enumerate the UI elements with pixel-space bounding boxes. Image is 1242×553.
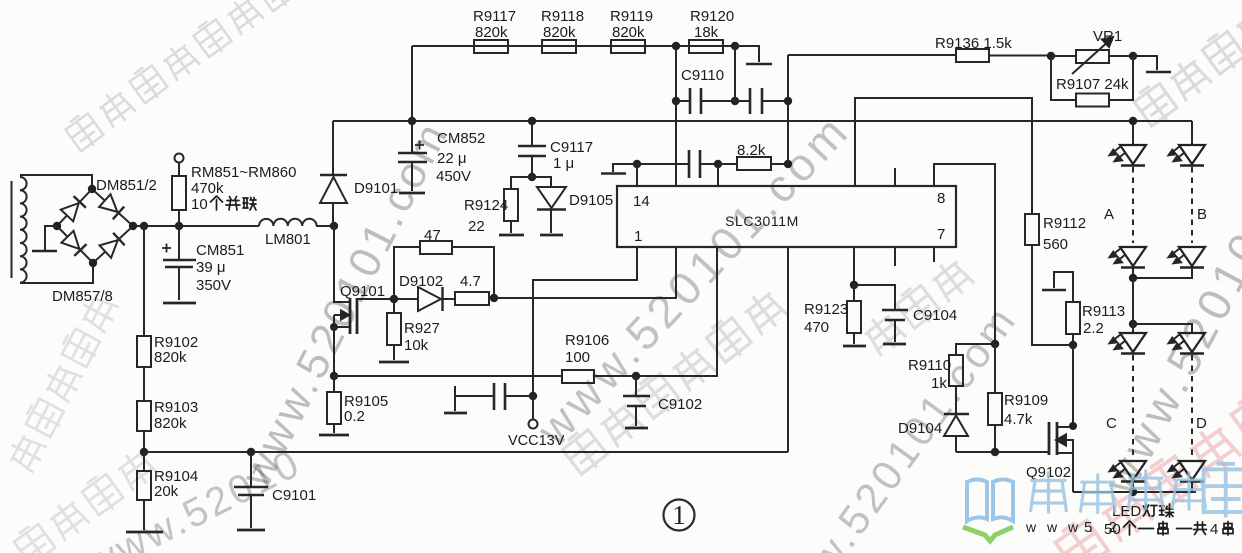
node Q9101 gate <box>390 295 398 303</box>
svg-text:7: 7 <box>937 226 945 243</box>
svg-text:R9119: R9119 <box>610 8 653 25</box>
node 8.2k right <box>784 160 792 168</box>
watermark www.520101.com left diagonal <box>231 113 458 495</box>
resistor R9110 <box>949 355 963 414</box>
wire R9104 to ground <box>143 500 145 530</box>
inductor LM801 <box>259 219 317 226</box>
resistor R9105 <box>327 376 341 433</box>
ground VR1 <box>1146 71 1171 74</box>
svg-text:R9112: R9112 <box>1043 215 1086 232</box>
LED D2 <box>1169 461 1206 482</box>
wire B2 to join <box>1133 268 1192 278</box>
ground R9104 <box>126 531 163 534</box>
svg-text:R9136 1.5k: R9136 1.5k <box>935 35 1012 52</box>
node VR1 left <box>1047 52 1055 60</box>
wire bottom rail riser to IC <box>787 247 789 452</box>
watermark CJK left edge <box>5 292 120 473</box>
wire dashed string C <box>1132 355 1134 456</box>
resistor R9103 <box>137 401 151 431</box>
capacitor CM851 <box>162 226 196 300</box>
node R9105 top <box>330 372 338 380</box>
svg-text:RM851~RM860: RM851~RM860 <box>191 164 296 181</box>
resistor R9120 <box>689 40 723 53</box>
wire AB to CD <box>1132 278 1134 324</box>
capacitor C9110b <box>735 88 788 114</box>
svg-text:820k: 820k <box>612 24 645 41</box>
ground C9104 <box>883 343 906 346</box>
ground at bridge left <box>32 250 57 253</box>
wire dashed string D <box>1191 355 1193 456</box>
label 10个并联 strokes <box>211 196 257 210</box>
wire pin stub 718 <box>717 164 719 186</box>
diode D9105 <box>532 177 566 233</box>
watermark CJK top-right corner <box>1132 2 1242 129</box>
svg-text:820k: 820k <box>543 24 576 41</box>
wire LED bottom rail <box>1073 491 1196 493</box>
resistor 8.2k <box>718 157 788 170</box>
wire bottom rail <box>144 451 788 453</box>
transformer winding T <box>12 177 27 283</box>
resistor 4.7 <box>455 292 494 305</box>
svg-text:C9117: C9117 <box>550 139 593 156</box>
node C9110 mid <box>731 97 739 105</box>
wire source to R9105 node <box>333 327 335 376</box>
LED A1 <box>1110 145 1147 166</box>
logo url text <box>1025 519 1123 536</box>
svg-text:100: 100 <box>565 349 590 366</box>
wire IC bottom dead stub pin7 <box>933 247 935 262</box>
transistor Q9102 <box>1049 345 1073 492</box>
svg-text:R9109: R9109 <box>1004 392 1048 409</box>
ground R9123 <box>843 345 866 348</box>
node gate net top <box>991 340 999 348</box>
svg-text:470: 470 <box>804 319 829 336</box>
node R9109 bottom <box>991 448 999 456</box>
wire A2 to join <box>1132 268 1134 278</box>
terminal VCC13V <box>529 396 538 429</box>
ground pin14 <box>601 172 626 175</box>
svg-text:R9113: R9113 <box>1082 303 1125 320</box>
wire R9110 top <box>956 344 995 355</box>
label LED CJK strokes <box>1124 504 1234 535</box>
LED D1 <box>1169 333 1206 354</box>
svg-text:C9104: C9104 <box>913 307 957 324</box>
wire C9110 riser <box>787 55 789 164</box>
node R9113 bottom <box>1069 341 1077 349</box>
wire pin14 stub <box>636 164 638 186</box>
node C9102 top <box>632 372 640 380</box>
node bridge top <box>88 185 96 193</box>
svg-text:R9110: R9110 <box>908 357 951 374</box>
node bridge right <box>129 222 137 230</box>
label LED strings bottom <box>1104 503 1218 538</box>
svg-text:4.7k: 4.7k <box>1004 411 1033 428</box>
wire HV rail top <box>333 120 1192 122</box>
diode D9101 <box>320 121 347 226</box>
watermark www.520101.com center diagonal <box>526 103 860 456</box>
svg-text:4.7: 4.7 <box>460 273 481 290</box>
LED A2 <box>1110 247 1147 268</box>
svg-text:1: 1 <box>634 228 642 245</box>
labels top resistor row <box>473 8 734 84</box>
wire R9103 to bottom rail <box>143 431 145 452</box>
wire C stem <box>1132 324 1134 333</box>
resistor R9104 <box>137 471 151 500</box>
svg-text:D9101: D9101 <box>354 180 398 197</box>
node bridge left <box>53 222 61 230</box>
svg-text:8.2k: 8.2k <box>737 142 766 159</box>
node C9101 top <box>247 448 255 456</box>
svg-text:C9102: C9102 <box>658 396 702 413</box>
resistor R9107 loop <box>1051 56 1133 107</box>
svg-text:Q9101: Q9101 <box>340 283 385 300</box>
svg-text:C9101: C9101 <box>272 487 316 504</box>
wire gate drive to IC pin <box>494 247 676 298</box>
wire coil bottom to bridge bottom <box>20 263 93 283</box>
node C9117 top <box>528 117 536 125</box>
svg-text:A: A <box>1104 206 1114 223</box>
watermark CJK mid-right of IC <box>860 255 975 357</box>
resistor R9106 <box>562 370 594 383</box>
wire R9120 right to C9110 mid <box>734 46 736 101</box>
wire R9102-R9103 <box>143 367 145 401</box>
node rail R9102 branch <box>140 222 148 230</box>
node C bottom <box>1129 488 1137 496</box>
resistor R9123 <box>847 285 861 344</box>
svg-text:R9123: R9123 <box>804 301 848 318</box>
wire pin1 loop <box>533 247 637 396</box>
wire IC top pin riser to R9112 <box>855 98 1032 214</box>
svg-text:CM851: CM851 <box>196 242 244 259</box>
svg-text:D9102: D9102 <box>399 273 443 290</box>
resistor R927 <box>387 299 401 360</box>
svg-text:C9110: C9110 <box>681 67 724 84</box>
wire VR1 right to ground <box>1133 56 1157 70</box>
logo book icon <box>963 480 1013 542</box>
node LED A top <box>1129 117 1137 125</box>
resistor R9124 <box>504 189 518 233</box>
svg-text:LM801: LM801 <box>265 231 311 248</box>
svg-text:350V: 350V <box>196 277 231 294</box>
LED B2 <box>1169 247 1206 268</box>
labels right section <box>804 28 1207 481</box>
svg-text:B: B <box>1197 206 1207 223</box>
watermark CJK top-left diagonal <box>63 0 297 154</box>
svg-text:1k: 1k <box>931 375 947 392</box>
wire dashed string B <box>1191 167 1193 243</box>
wire dashed string A <box>1132 167 1134 243</box>
svg-text:R9118: R9118 <box>541 8 584 25</box>
capacitor C9102 <box>623 376 650 426</box>
svg-text:R9107 24k: R9107 24k <box>1056 76 1129 93</box>
svg-text:10k: 10k <box>404 337 429 354</box>
capacitor Vcc <box>455 383 533 411</box>
ground R9124 <box>499 234 524 237</box>
wire LM801 to drain node <box>316 225 334 227</box>
svg-text:1: 1 <box>672 500 686 530</box>
svg-text:D9104: D9104 <box>898 420 942 437</box>
wire C9110 row <box>675 46 677 186</box>
wire to ground right of R9120 <box>735 46 759 62</box>
svg-text:4: 4 <box>1210 521 1218 538</box>
node R9120 right <box>731 42 739 50</box>
labels middle section <box>340 142 766 449</box>
svg-text:0.2: 0.2 <box>344 408 365 425</box>
resistor R9112 <box>1025 214 1073 345</box>
node CM852 top <box>408 117 416 125</box>
svg-text:R9124: R9124 <box>464 197 508 214</box>
node CD split <box>1129 320 1137 328</box>
resistor R9136 <box>956 49 1051 62</box>
node bridge bottom <box>89 259 97 267</box>
node gate drive <box>490 294 498 302</box>
ground C9102 <box>625 427 648 430</box>
wire bridge left to ground <box>45 226 57 250</box>
svg-text:R9120: R9120 <box>690 8 734 25</box>
wire LED top feed A <box>1132 121 1134 145</box>
capacitor CM852 <box>398 121 427 191</box>
node R9123 top <box>850 281 858 289</box>
svg-text:VR1: VR1 <box>1093 28 1122 45</box>
watermark CJK center diagonal <box>560 287 789 478</box>
svg-text:VCC13V: VCC13V <box>508 433 565 449</box>
wire IC bottom dead stub a <box>894 247 896 266</box>
wire C2 to rail <box>1132 482 1134 492</box>
svg-text:D9105: D9105 <box>569 192 613 209</box>
wire IC bottom stub R9123 <box>853 247 855 285</box>
labels IC <box>633 190 945 245</box>
wire top resistor rail <box>412 45 735 47</box>
watermark www.520101.com right-bottom diagonal <box>760 296 1026 553</box>
LED B1 <box>1169 145 1206 166</box>
watermark www.520101.com right edge diagonal <box>1092 83 1242 503</box>
svg-text:SLC3011M: SLC3011M <box>725 213 799 229</box>
node Vcc cap <box>529 392 537 400</box>
svg-text:R9117: R9117 <box>473 8 516 25</box>
IC U1 SLC3011M box <box>617 186 956 247</box>
svg-text:470k: 470k <box>191 180 224 197</box>
node C9110 right <box>784 97 792 105</box>
wire to R9124 <box>511 177 532 189</box>
node C9117 bottom <box>528 173 536 181</box>
resistor R9113 <box>1066 302 1080 345</box>
svg-text:47: 47 <box>424 227 441 244</box>
svg-text:22 μ: 22 μ <box>437 150 467 167</box>
transistor Q9101 <box>334 226 394 334</box>
capacitor C9110a <box>676 88 735 114</box>
wire feedback top to R9136 <box>788 54 956 56</box>
svg-text:1 μ: 1 μ <box>553 155 574 172</box>
capacitor C9101 <box>234 452 268 528</box>
svg-text:39 μ: 39 μ <box>196 259 226 276</box>
wire coil top to bridge top <box>20 175 92 189</box>
wire main rail bridge to LM801 <box>133 225 259 227</box>
resistor R9119 <box>611 40 645 53</box>
potentiometer VR1 <box>1051 37 1133 74</box>
ground Vcc cap <box>444 412 467 415</box>
svg-text:R9106: R9106 <box>565 332 609 349</box>
svg-text:20k: 20k <box>154 483 179 500</box>
svg-text:14: 14 <box>633 193 650 210</box>
node AB join <box>1129 274 1137 282</box>
ground C9101 <box>237 529 265 532</box>
watermark www bottom-left shallow <box>79 441 308 553</box>
svg-text:450V: 450V <box>436 168 471 185</box>
svg-text:DM851/2: DM851/2 <box>96 177 157 194</box>
watermark CJK bottom-left corner <box>12 446 159 553</box>
svg-text:8: 8 <box>937 190 945 207</box>
wire R9104 stem <box>143 452 145 471</box>
ground R9113 top <box>1042 272 1073 302</box>
wire LED top feed B <box>1191 121 1193 145</box>
svg-text:560: 560 <box>1043 236 1068 253</box>
node VR1 right <box>1129 52 1137 60</box>
watermark CJK red bottom-right diagonal <box>1053 389 1242 553</box>
node 8.2k left <box>714 160 722 168</box>
svg-text:820k: 820k <box>475 24 508 41</box>
svg-text:18k: 18k <box>694 24 719 41</box>
capacitor on pin14 row <box>637 150 718 178</box>
svg-text:820k: 820k <box>154 415 187 432</box>
wire pin14 to ground <box>613 164 637 172</box>
wire pin8 riser <box>934 164 995 344</box>
bridge rectifier DM851/2 DM857/8 <box>57 189 133 263</box>
ground CM852 <box>399 192 425 195</box>
node Q9102 drain <box>1069 422 1077 430</box>
svg-text:R927: R927 <box>404 320 440 337</box>
resistor R9109 <box>988 344 1002 452</box>
capacitor C9117 <box>518 121 546 177</box>
labels left section <box>52 130 613 504</box>
ground R927 <box>379 361 409 364</box>
wire gate row Q9102 <box>956 451 1049 453</box>
diode D9102 <box>394 287 455 311</box>
node R9119/R9120 junction <box>672 42 680 50</box>
svg-text:10: 10 <box>191 196 208 213</box>
wire R9106 row <box>334 247 717 376</box>
ground D9105 <box>540 234 563 237</box>
ground right of R9120 <box>746 63 772 66</box>
LED C1 <box>1110 333 1147 354</box>
wire IC top dead stub <box>894 168 896 186</box>
wire riser to top resistor rail <box>411 46 413 121</box>
svg-text:D: D <box>1196 415 1207 432</box>
ground CM851 <box>163 302 196 305</box>
wire CD split to D <box>1133 324 1192 333</box>
node C9110 left <box>672 97 680 105</box>
resistor RM851~RM860 <box>172 163 186 226</box>
node rail RM851 branch <box>175 222 183 230</box>
node pin14 <box>633 160 641 168</box>
wire D2 to rail <box>1191 482 1193 492</box>
svg-text:C: C <box>1106 415 1117 432</box>
resistor R9117 <box>474 40 508 53</box>
resistor R9102 <box>137 336 151 367</box>
svg-text:DM857/8: DM857/8 <box>52 288 113 305</box>
svg-text:820k: 820k <box>154 349 187 366</box>
circled figure number 1 <box>664 500 695 531</box>
svg-text:2.2: 2.2 <box>1083 320 1104 337</box>
capacitor C9104 <box>854 285 908 342</box>
node bottom rail left <box>140 448 148 456</box>
resistor R9118 <box>542 40 576 53</box>
terminal RM851 top <box>175 154 184 163</box>
wire R9102 chain riser <box>143 226 145 336</box>
node LM801/D9101/Q9101 <box>330 222 338 230</box>
ground R9105 <box>319 434 349 437</box>
svg-text:R9103: R9103 <box>154 399 198 416</box>
LED C2 <box>1110 461 1147 482</box>
svg-text:5 2: 5 2 <box>1084 519 1123 536</box>
resistor 47 feedback loop <box>394 241 494 299</box>
svg-text:CM852: CM852 <box>437 130 485 147</box>
svg-text:22: 22 <box>468 218 485 235</box>
logo blue CJK text <box>1031 464 1242 518</box>
node Q9101 source <box>330 323 338 331</box>
diode D9104 <box>944 414 969 452</box>
